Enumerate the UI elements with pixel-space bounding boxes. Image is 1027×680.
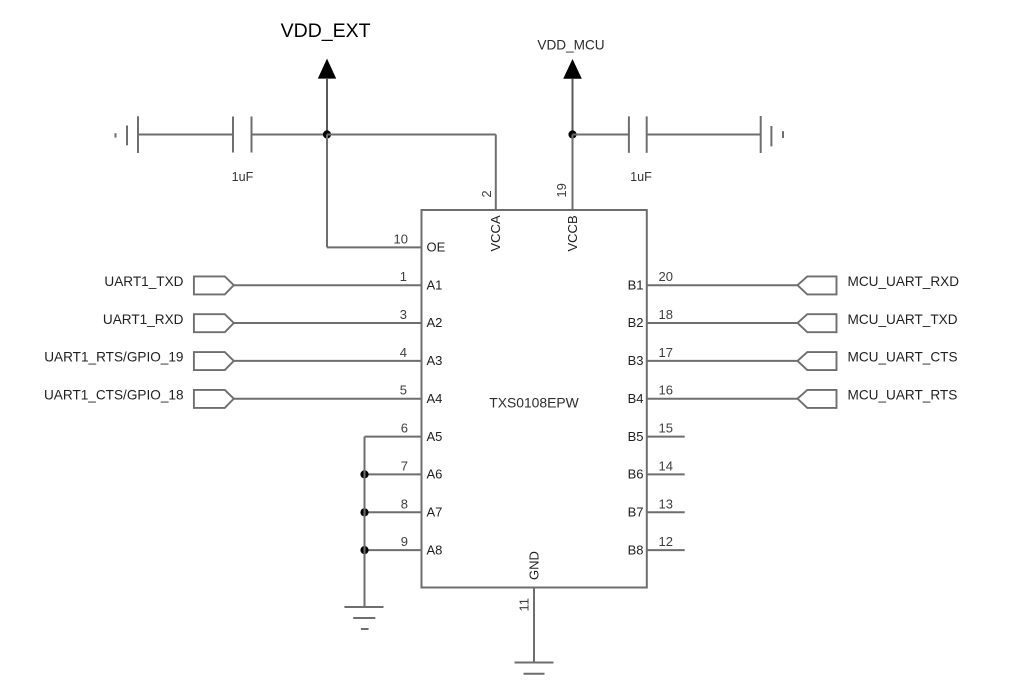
net flag MCU_UART_RTS — [798, 390, 837, 408]
wire — [573, 134, 629, 136]
svg-text:12: 12 — [659, 534, 673, 549]
ground (GND pin) — [515, 662, 554, 664]
junction — [360, 546, 368, 554]
wire — [647, 436, 685, 438]
svg-text:OE: OE — [427, 240, 446, 255]
power symbol VDD_EXT (arrow) — [318, 59, 336, 79]
svg-text:MCU_UART_RXD: MCU_UART_RXD — [848, 274, 960, 289]
svg-text:16: 16 — [659, 383, 673, 398]
svg-text:MCU_UART_RTS: MCU_UART_RTS — [848, 388, 958, 403]
wire — [365, 511, 422, 513]
svg-text:VCCB: VCCB — [565, 215, 580, 251]
svg-text:13: 13 — [659, 496, 673, 511]
wire — [327, 246, 422, 248]
capacitor 1uF (right) — [628, 116, 630, 152]
wire — [647, 511, 685, 513]
svg-text:1uF: 1uF — [232, 170, 254, 184]
svg-text:B7: B7 — [628, 505, 644, 520]
svg-text:19: 19 — [554, 183, 569, 197]
svg-text:A2: A2 — [427, 315, 443, 330]
svg-text:B4: B4 — [628, 391, 644, 406]
svg-text:B2: B2 — [628, 315, 644, 330]
svg-text:VDD_EXT: VDD_EXT — [281, 20, 371, 42]
svg-text:2: 2 — [479, 190, 494, 197]
wire — [647, 134, 761, 136]
net flag UART1_RTS/GPIO_19 — [194, 352, 234, 370]
wire — [138, 134, 233, 136]
svg-text:3: 3 — [400, 307, 407, 322]
wire — [234, 360, 422, 362]
wire — [495, 135, 497, 211]
wire — [647, 360, 798, 362]
svg-text:A4: A4 — [427, 391, 443, 406]
wire — [252, 134, 328, 136]
wire — [365, 549, 422, 551]
net flag MCU_UART_RXD — [798, 276, 837, 294]
svg-text:VDD_MCU: VDD_MCU — [537, 38, 604, 53]
wire — [365, 436, 422, 438]
svg-text:A6: A6 — [427, 467, 443, 482]
svg-text:9: 9 — [401, 534, 408, 549]
wire — [327, 134, 496, 136]
svg-text:7: 7 — [401, 458, 408, 473]
svg-text:B6: B6 — [628, 467, 644, 482]
wire — [364, 437, 366, 607]
ground (left, rotated) — [137, 116, 139, 153]
wire — [326, 135, 328, 248]
svg-text:UART1_TXD: UART1_TXD — [104, 274, 183, 289]
svg-text:1: 1 — [400, 269, 407, 284]
wire — [234, 398, 422, 400]
svg-text:B5: B5 — [628, 429, 644, 444]
wire — [647, 284, 798, 286]
svg-text:GND: GND — [527, 551, 542, 580]
net flag UART1_CTS/GPIO_18 — [194, 390, 234, 408]
svg-text:B8: B8 — [628, 542, 644, 557]
net flag UART1_TXD — [194, 276, 234, 294]
svg-text:A5: A5 — [427, 429, 443, 444]
svg-text:A7: A7 — [427, 505, 443, 520]
svg-text:A8: A8 — [427, 542, 443, 557]
svg-text:A1: A1 — [427, 277, 443, 292]
svg-text:A3: A3 — [427, 353, 443, 368]
junction (VDD_MCU node) — [568, 130, 576, 138]
svg-text:UART1_RXD: UART1_RXD — [103, 312, 184, 327]
wire — [572, 135, 574, 211]
svg-text:UART1_RTS/GPIO_19: UART1_RTS/GPIO_19 — [44, 350, 183, 365]
svg-text:4: 4 — [400, 345, 407, 360]
capacitor 1uF (left) — [232, 117, 234, 153]
svg-text:B3: B3 — [628, 353, 644, 368]
svg-text:17: 17 — [659, 345, 673, 360]
svg-text:15: 15 — [659, 421, 673, 436]
svg-text:TXS0108EPW: TXS0108EPW — [489, 395, 579, 411]
junction (VDD_EXT node) — [323, 130, 331, 138]
svg-text:18: 18 — [659, 307, 673, 322]
junction — [360, 470, 368, 478]
ground (right, rotated) — [760, 116, 762, 153]
svg-text:5: 5 — [400, 383, 407, 398]
svg-text:20: 20 — [659, 269, 673, 284]
power symbol VDD_MCU (arrow) — [563, 59, 582, 79]
wire — [647, 473, 685, 475]
svg-text:14: 14 — [659, 458, 673, 473]
svg-text:UART1_CTS/GPIO_18: UART1_CTS/GPIO_18 — [44, 388, 184, 403]
junction — [360, 508, 368, 516]
svg-text:6: 6 — [401, 421, 408, 436]
wire — [647, 322, 798, 324]
svg-text:VCCA: VCCA — [488, 215, 503, 251]
svg-text:8: 8 — [401, 496, 408, 511]
wire — [533, 588, 535, 663]
net flag MCU_UART_CTS — [798, 352, 837, 370]
net flag MCU_UART_TXD — [798, 314, 837, 332]
svg-text:B1: B1 — [628, 277, 644, 292]
svg-text:MCU_UART_CTS: MCU_UART_CTS — [848, 350, 958, 365]
svg-text:1uF: 1uF — [630, 170, 652, 184]
wire — [647, 549, 685, 551]
net flag UART1_RXD — [194, 314, 234, 332]
wire — [647, 398, 798, 400]
svg-text:MCU_UART_TXD: MCU_UART_TXD — [848, 312, 958, 327]
wire — [365, 473, 422, 475]
wire — [234, 322, 422, 324]
svg-text:11: 11 — [517, 598, 532, 612]
svg-text:10: 10 — [394, 231, 408, 246]
IC U1 TXS0108EPW (body) — [422, 210, 647, 588]
wire — [234, 284, 422, 286]
ground (A5-A8 bus) — [344, 606, 383, 608]
